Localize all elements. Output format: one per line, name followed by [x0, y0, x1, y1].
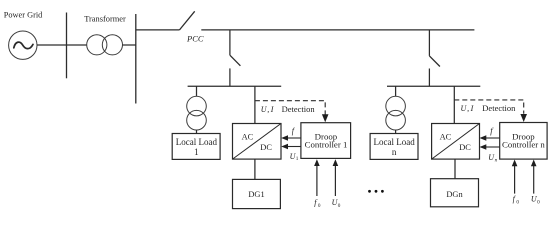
wire: top bus main segment [201, 29, 474, 31]
AC source sine wave [14, 42, 33, 49]
switch blade branch n (open) [429, 56, 440, 67]
svg-text:1: 1 [194, 147, 199, 157]
wire: branch n drop from bus [428, 30, 430, 56]
switch blade branch 1 (open) [230, 55, 241, 66]
svg-text:0: 0 [537, 199, 540, 205]
arrow: f0 input to Droop n [512, 160, 518, 194]
transformer T2 circle top [187, 96, 207, 116]
text: U1 label [290, 152, 299, 162]
converter U1 AC/DC box [233, 124, 282, 160]
box: DG1 [233, 179, 281, 208]
arrow: U1 setpoint Droop 1 to converter [281, 144, 301, 150]
wire: junction to converter 1 [254, 86, 256, 123]
dashed wire: detection tap branch n [454, 100, 523, 114]
svg-text:Local Load: Local Load [176, 137, 218, 147]
svg-text:DG1: DG1 [248, 190, 264, 199]
bus bar 2 (vertical) [135, 14, 137, 104]
svg-text:Controller n: Controller n [502, 139, 545, 149]
svg-text:0: 0 [516, 199, 519, 205]
box: Droop Controller n [500, 123, 547, 160]
arrow: U0 input to Droop 1 [333, 159, 339, 196]
text: f0 label branch 1 [314, 198, 321, 209]
svg-text:,: , [467, 104, 469, 113]
ellipsis dots between branches [368, 190, 384, 193]
transformer T2 circle bottom [187, 110, 207, 130]
transformer T1 circle left [87, 35, 107, 55]
text: U0 label branch 1 [332, 198, 341, 209]
svg-text:Power Grid: Power Grid [4, 10, 43, 19]
svg-text:DGn: DGn [446, 190, 463, 199]
arrowhead: detection into Droop Controller n [520, 114, 527, 122]
switch blade at PCC (open) [180, 11, 195, 30]
wire: converter 1 to DG1 [254, 159, 256, 179]
wire: transformer to bus bar 2 [123, 44, 136, 46]
AC source (power grid) circle [9, 31, 37, 59]
wire: stub to transformer Tn [395, 86, 397, 96]
text: U0 label branch n [531, 195, 540, 206]
svg-text:0: 0 [338, 203, 341, 209]
transformer Tn circle bottom [386, 110, 406, 130]
svg-text:Transformer: Transformer [84, 14, 126, 23]
arrow: U0 input to Droop n [531, 160, 537, 194]
dashed wire: detection tap branch 1 [255, 101, 325, 115]
wire: top bus left segment [136, 29, 180, 31]
wire: branch n lower drop [428, 69, 430, 87]
wire: branch 1 junction bus [188, 85, 282, 87]
transformer T1 circle right [102, 35, 122, 55]
svg-text:n: n [392, 147, 397, 157]
svg-text:n: n [495, 157, 498, 163]
wire: transformer Tn to Local Load n [395, 130, 397, 134]
svg-text:Detection: Detection [482, 103, 516, 113]
arrowhead: detection into Droop Controller 1 [322, 114, 329, 122]
svg-text:I: I [470, 104, 474, 113]
box: DGn [431, 179, 479, 207]
wire: branch 1 drop from bus [229, 30, 231, 55]
svg-text:I: I [270, 105, 274, 114]
svg-text:DC: DC [260, 143, 272, 152]
text: Un label [488, 153, 497, 163]
svg-text:DC: DC [459, 143, 471, 152]
wire: AC source to transformer [37, 44, 87, 46]
arrow: f setpoint Droop 1 to converter [281, 135, 301, 141]
wire: branch 1 lower drop [229, 68, 231, 86]
arrow: Un setpoint Droop n to converter [480, 144, 500, 150]
svg-text:Detection: Detection [282, 104, 316, 114]
bus bar 1 (vertical) [66, 13, 68, 79]
svg-text:1: 1 [296, 156, 299, 162]
svg-text:,: , [267, 105, 269, 114]
svg-text:Controller 1: Controller 1 [305, 139, 348, 149]
wire: branch n junction bus [387, 85, 480, 87]
text: f0 label branch n [513, 195, 520, 206]
arrow: f0 input to Droop 1 [314, 159, 320, 196]
svg-text:AC: AC [242, 133, 254, 142]
arrow: f setpoint Droop n to converter [480, 135, 500, 141]
converter Un AC/DC box [432, 124, 480, 160]
svg-text:0: 0 [318, 203, 321, 209]
svg-text:AC: AC [440, 133, 452, 142]
box: Local Load n [370, 134, 418, 160]
wire: transformer T2 to Local Load 1 [196, 130, 198, 134]
box: Droop Controller 1 [301, 123, 351, 159]
transformer Tn circle top [386, 96, 406, 116]
box: Local Load 1 [172, 134, 220, 160]
wire: junction to converter n [453, 86, 455, 123]
svg-text:PCC: PCC [186, 34, 204, 44]
wire: converter n to DGn [454, 159, 456, 179]
svg-text:Local Load: Local Load [373, 137, 415, 147]
wire: stub to transformer T2 [196, 86, 198, 96]
